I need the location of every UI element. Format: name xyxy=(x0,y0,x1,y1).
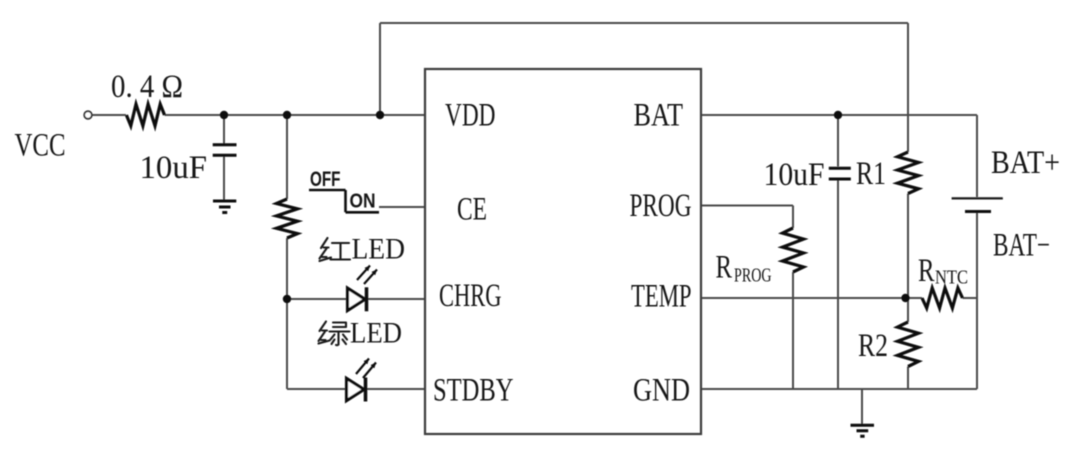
svg-text:CE: CE xyxy=(457,192,487,228)
svg-text:NTC: NTC xyxy=(935,267,968,289)
svg-text:PROG: PROG xyxy=(630,188,692,224)
svg-text:10uF: 10uF xyxy=(764,157,825,193)
svg-text:ON: ON xyxy=(350,190,376,213)
svg-text:PROG: PROG xyxy=(734,265,772,287)
svg-text:BAT+: BAT+ xyxy=(991,145,1060,181)
svg-text:0. 4 Ω: 0. 4 Ω xyxy=(111,69,183,105)
svg-text:R1: R1 xyxy=(856,156,886,192)
svg-text:STDBY: STDBY xyxy=(433,373,514,409)
svg-text:BAT−: BAT− xyxy=(993,228,1050,264)
svg-text:BAT: BAT xyxy=(634,98,684,134)
svg-text:LED: LED xyxy=(350,317,402,350)
svg-text:LED: LED xyxy=(352,233,406,266)
svg-text:R2: R2 xyxy=(858,328,888,364)
svg-text:OFF: OFF xyxy=(310,168,341,191)
svg-text:CHRG: CHRG xyxy=(439,278,502,314)
svg-text:R: R xyxy=(716,250,733,286)
svg-text:TEMP: TEMP xyxy=(631,278,692,314)
svg-text:VCC: VCC xyxy=(15,128,66,164)
svg-text:GND: GND xyxy=(633,373,690,409)
svg-text:VDD: VDD xyxy=(445,98,496,134)
svg-text:R: R xyxy=(918,253,935,289)
svg-text:10uF: 10uF xyxy=(140,150,208,186)
